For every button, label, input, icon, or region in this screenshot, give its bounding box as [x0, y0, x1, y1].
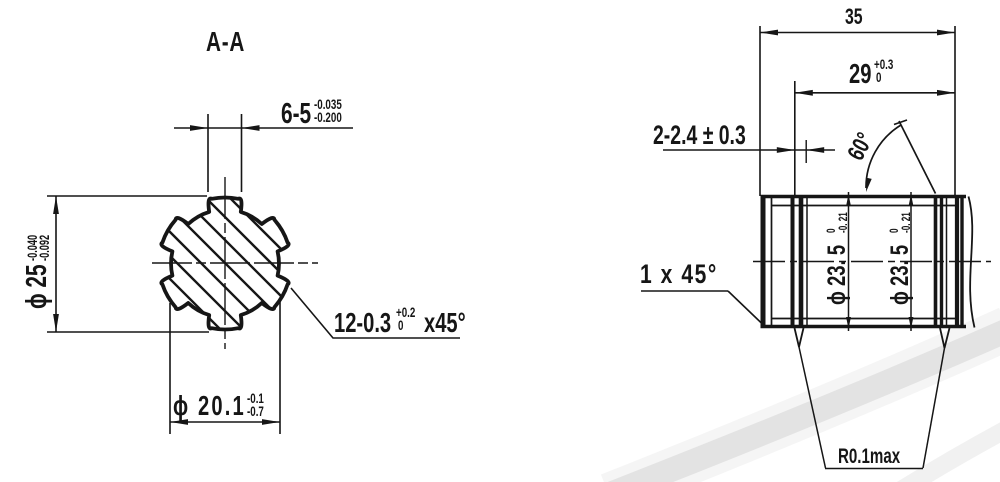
- vertical centerline of section: [224, 177, 226, 349]
- shaft right end line 2: [960, 195, 963, 328]
- dimension 2-2.4 arrows: [777, 147, 795, 153]
- note text R0.1max: [838, 443, 901, 467]
- groove 2 leader to R0.1max: [923, 348, 945, 468]
- horizontal centerline of section: [152, 262, 318, 264]
- chamfer note leader: [728, 291, 765, 326]
- dimension phi20.1 extension lines: [169, 303, 171, 434]
- dimension phi20.1 arrows: [170, 419, 188, 425]
- dimension 29 line: [795, 92, 955, 94]
- angle 60deg flank line: [899, 121, 936, 194]
- watermark swoosh halo: [609, 328, 1000, 482]
- dimension 35 text: [845, 6, 863, 30]
- groove 1 leader to R0.1max: [799, 347, 826, 468]
- inner diameter line top: [772, 205, 958, 207]
- svg-text:6-5: 6-5: [281, 98, 311, 130]
- watermark swoosh secondary band: [872, 424, 1000, 482]
- groove 1 edge line: [806, 197, 808, 326]
- dimension 2-2.4 +-0.3 text: [653, 120, 746, 150]
- dimension text phi23.5 0/-0.21 second (rotated): [885, 212, 913, 305]
- svg-text:x45°: x45°: [424, 308, 466, 339]
- shaft centerline: [753, 261, 991, 263]
- hatching: [140, 61, 310, 466]
- svg-text:-0. 21: -0. 21: [901, 212, 914, 233]
- angle 60deg apex tick: [894, 120, 907, 125]
- dimension 6-5 arrows: [190, 125, 208, 131]
- dimension phi25 arrows: [53, 196, 59, 214]
- chamfer note underline: [641, 290, 728, 292]
- groove 2 edge line: [946, 197, 948, 326]
- svg-text:-0.7: -0.7: [247, 403, 264, 419]
- svg-text:ϕ 23. 5: ϕ 23. 5: [885, 245, 913, 305]
- dimension 6-5 line: [174, 127, 353, 129]
- dimension text phi25 -0.040/-0.092 (rotated): [21, 234, 53, 309]
- break line: [969, 197, 975, 328]
- note underline R0.1max: [825, 468, 923, 470]
- groove 1 left flank: [791, 197, 795, 326]
- dimension text phi23.5 0/-0.21 first (rotated): [822, 212, 850, 305]
- dimension 35 line: [760, 32, 955, 34]
- groove 2 left flank: [934, 197, 938, 326]
- svg-text:29: 29: [849, 59, 871, 90]
- chamfer note text 12-0.3 +0.2/0 x45deg: [334, 308, 391, 339]
- svg-text:12-0.3: 12-0.3: [334, 308, 391, 339]
- shaft body bottom edge: [761, 325, 967, 329]
- watermark swoosh main band: [610, 330, 1000, 482]
- svg-text:0: 0: [889, 228, 902, 233]
- dimension text 6-5 -0.035/-0.200: [281, 98, 311, 130]
- shaft left end edge: [761, 195, 766, 328]
- dimension 2-2.4 leader line: [663, 149, 835, 151]
- dimension text phi20.1 -0.1/-0.7: [173, 391, 246, 422]
- dimension phi25 line: [55, 196, 57, 332]
- dimension 29 text +0.3/0: [849, 59, 871, 90]
- leader line for chamfer note 12-0.3: [291, 288, 460, 338]
- svg-text:0: 0: [826, 228, 839, 233]
- shaft body top edge: [761, 195, 967, 199]
- inner diameter line bottom: [772, 318, 958, 320]
- svg-text:ϕ 25: ϕ 25: [21, 264, 53, 309]
- dimension phi25 extension lines: [47, 195, 207, 197]
- svg-text:-0. 21: -0. 21: [838, 212, 851, 233]
- svg-text:-0.200: -0.200: [314, 109, 342, 125]
- section label A-A: [206, 27, 245, 58]
- groove 1 relief V: [795, 328, 804, 347]
- svg-text:0: 0: [398, 317, 404, 333]
- svg-text:R0.1max: R0.1max: [838, 443, 901, 467]
- phi23.5 dim line 1: [848, 192, 850, 331]
- svg-text:35: 35: [845, 6, 863, 30]
- dimension 6-5 extension lines: [207, 114, 209, 192]
- shaft right end line 1: [955, 195, 959, 328]
- angle 60deg arc: [866, 125, 901, 188]
- angle text 60deg (rotated): [843, 129, 879, 165]
- chamfer note 1 x 45deg: [640, 260, 718, 290]
- svg-text:1 x 45°: 1 x 45°: [640, 260, 718, 290]
- groove 2 right flank: [940, 197, 943, 326]
- phi23.5 dim line 2: [910, 192, 912, 331]
- svg-text:ϕ 20.1: ϕ 20.1: [173, 391, 246, 422]
- svg-text:0: 0: [876, 69, 882, 85]
- svg-text:2-2.4 ± 0.3: 2-2.4 ± 0.3: [653, 120, 746, 150]
- svg-text:ϕ 23. 5: ϕ 23. 5: [822, 245, 850, 305]
- chamfer line left end: [771, 198, 773, 325]
- groove 2 relief V: [940, 328, 950, 348]
- svg-text:-0.092: -0.092: [36, 234, 53, 261]
- groove 1 right flank: [799, 197, 804, 326]
- svg-text:A-A: A-A: [206, 27, 245, 58]
- groove flank tick: [805, 140, 807, 163]
- dimension 29 extension line: [794, 81, 796, 197]
- dimension 35 extension lines: [759, 26, 761, 196]
- dimension phi20.1 line: [170, 421, 280, 423]
